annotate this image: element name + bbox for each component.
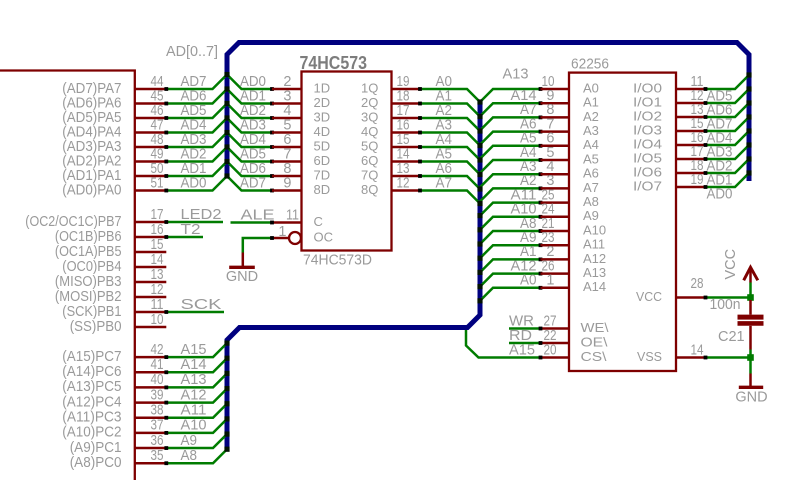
svg-text:38: 38 bbox=[151, 403, 164, 419]
svg-text:19: 19 bbox=[691, 172, 704, 188]
svg-text:VCC: VCC bbox=[723, 249, 739, 280]
wire net A5 (latch 6Q to A bus) bbox=[418, 146, 480, 174]
wire net A0 (A bus to SRAM pin 1) bbox=[480, 273, 542, 301]
pin 10 PB0 bbox=[70, 312, 167, 335]
svg-text:(A10)PC2: (A10)PC2 bbox=[62, 425, 121, 441]
pin 39 PC4 bbox=[62, 387, 166, 410]
SRAM pin 19 I/O7 bbox=[633, 172, 706, 194]
svg-text:A10: A10 bbox=[181, 418, 207, 434]
pin 46 PA5 bbox=[62, 103, 166, 126]
SRAM pin 18 I/O6 bbox=[633, 158, 706, 180]
svg-text:(OC2/OC1C)PB7: (OC2/OC1C)PB7 bbox=[25, 214, 121, 230]
SRAM pin 8 A2 bbox=[541, 102, 599, 124]
latch pin 9 8D bbox=[272, 175, 330, 197]
svg-text:14: 14 bbox=[691, 342, 704, 358]
wire net AD7 (SRAM I/O2 to AD bus) bbox=[704, 103, 749, 133]
wire net AD4 (CPU to AD bus) bbox=[164, 117, 227, 134]
svg-text:3D: 3D bbox=[314, 109, 331, 124]
latch pin 17 3Q bbox=[361, 103, 420, 125]
SRAM pin 9 A1 bbox=[541, 88, 599, 110]
svg-text:1: 1 bbox=[278, 224, 286, 240]
latch pin 18 2Q bbox=[361, 88, 420, 110]
svg-text:39: 39 bbox=[151, 387, 164, 403]
svg-text:14: 14 bbox=[151, 252, 164, 268]
svg-text:GND: GND bbox=[226, 269, 258, 285]
latch pin 7 6D bbox=[272, 146, 330, 168]
svg-text:17: 17 bbox=[151, 207, 164, 223]
wire net AD3 (SRAM I/O4 to AD bus) bbox=[704, 131, 749, 161]
svg-text:I/O3: I/O3 bbox=[633, 122, 662, 137]
SRAM pin 20 CS\ bbox=[541, 343, 607, 364]
svg-text:36: 36 bbox=[151, 433, 164, 449]
wire net AD7 (AD bus to latch 7D) bbox=[227, 175, 274, 192]
wire net A3 (A bus to SRAM pin 4) bbox=[480, 159, 542, 187]
wire net GND (pin14 to ground) bbox=[704, 356, 753, 360]
svg-text:SCK: SCK bbox=[181, 297, 222, 313]
svg-text:35: 35 bbox=[151, 448, 164, 464]
latch pin 3 2D bbox=[272, 88, 330, 110]
svg-text:1Q: 1Q bbox=[361, 80, 378, 95]
wire OC to ground bbox=[243, 236, 274, 252]
wire net AD6 (CPU to AD bus) bbox=[164, 88, 227, 105]
wire net AD3 (AD bus to latch 3D) bbox=[227, 117, 274, 134]
wire net AD3 (CPU to AD bus) bbox=[164, 132, 227, 149]
svg-text:(OC0)PB4: (OC0)PB4 bbox=[62, 259, 121, 275]
svg-text:4D: 4D bbox=[314, 124, 331, 139]
wire net AD0 (CPU to AD bus) bbox=[164, 175, 227, 192]
wire net AD2 (AD bus to latch 2D) bbox=[227, 103, 274, 120]
svg-text:A15: A15 bbox=[509, 343, 535, 359]
SRAM pin 1 A14 bbox=[541, 273, 607, 295]
svg-text:28: 28 bbox=[691, 276, 704, 292]
pin 40 PC5 bbox=[62, 372, 166, 395]
svg-text:6Q: 6Q bbox=[361, 153, 378, 168]
bus label AD[0..7] bbox=[166, 44, 218, 60]
svg-text:LED2: LED2 bbox=[181, 207, 222, 223]
svg-text:AD7: AD7 bbox=[240, 175, 266, 191]
bus A[0..15] (lower loop) bbox=[227, 100, 480, 448]
svg-text:7Q: 7Q bbox=[361, 167, 378, 182]
svg-text:A10: A10 bbox=[583, 222, 606, 237]
pin 36 PC1 bbox=[70, 433, 167, 456]
svg-text:GND: GND bbox=[735, 390, 767, 406]
SRAM pin 15 I/O3 bbox=[633, 116, 706, 138]
SRAM pin 17 I/O5 bbox=[633, 144, 706, 166]
svg-text:I/O7: I/O7 bbox=[633, 178, 662, 193]
svg-text:OC: OC bbox=[314, 229, 334, 244]
svg-text:A0: A0 bbox=[583, 80, 599, 95]
svg-text:74HC573: 74HC573 bbox=[300, 53, 368, 73]
svg-text:T2: T2 bbox=[181, 222, 201, 238]
pin 12 PB2 bbox=[55, 282, 166, 305]
svg-text:11: 11 bbox=[151, 297, 164, 313]
SRAM pin 26 A13 bbox=[541, 258, 607, 280]
pin 45 PA6 bbox=[62, 88, 166, 111]
wire net A7 (latch 8Q to A bus) bbox=[418, 175, 480, 203]
svg-text:51: 51 bbox=[151, 175, 164, 191]
svg-text:6D: 6D bbox=[314, 153, 331, 168]
svg-text:(MISO)PB3: (MISO)PB3 bbox=[55, 274, 122, 290]
pin 44 PA7 bbox=[62, 74, 166, 97]
wire net A2 (latch 3Q to A bus) bbox=[418, 103, 480, 131]
wire net AD6 (AD bus to latch 6D) bbox=[227, 161, 274, 178]
wire net ALE bbox=[231, 207, 275, 224]
pin 49 PA2 bbox=[62, 146, 166, 169]
pin 16 PB6 bbox=[55, 222, 166, 245]
wire net AD5 (CPU to AD bus) bbox=[164, 103, 227, 120]
svg-text:A8: A8 bbox=[583, 194, 599, 209]
svg-text:A13: A13 bbox=[503, 67, 529, 83]
wire net AD7 (CPU to AD bus) bbox=[164, 74, 227, 91]
svg-text:10: 10 bbox=[151, 312, 164, 328]
svg-text:A14: A14 bbox=[583, 279, 606, 294]
wire net AD2 (SRAM I/O5 to AD bus) bbox=[704, 145, 749, 175]
pin 50 PA1 bbox=[62, 161, 166, 184]
label 74HC573D (value) bbox=[303, 253, 372, 269]
bus tap junctions (dark overlaps) bbox=[224, 72, 751, 452]
wire net AD5 (AD bus to latch 5D) bbox=[227, 146, 274, 163]
latch pin 5 4D bbox=[272, 117, 330, 139]
svg-text:A1: A1 bbox=[583, 95, 599, 110]
svg-text:5Q: 5Q bbox=[361, 138, 378, 153]
latch pin 4 3D bbox=[272, 103, 330, 125]
bus AD[0..7] (top loop) bbox=[227, 43, 749, 182]
pin 51 PA0 bbox=[62, 175, 166, 198]
svg-text:(MOSI)PB2: (MOSI)PB2 bbox=[55, 289, 122, 305]
wire net A0 (latch 1Q to A bus) bbox=[418, 74, 480, 102]
svg-text:20: 20 bbox=[544, 343, 557, 359]
IC CPU (AVR, partial symbol) box bbox=[0, 71, 135, 480]
wire net A6 (A bus to SRAM pin 7) bbox=[480, 116, 542, 144]
wire net VCC (pin28 to supply) bbox=[704, 296, 753, 300]
latch pin 1 OC (inverted, bubble) bbox=[272, 224, 333, 245]
wire net A10 (A bus to SRAM pin 24) bbox=[480, 202, 542, 230]
wire net A3 (latch 4Q to A bus) bbox=[418, 117, 480, 145]
svg-text:(OC1B)PB6: (OC1B)PB6 bbox=[55, 229, 122, 245]
label 62256 (name) bbox=[571, 57, 609, 73]
wire net SCK bbox=[164, 297, 224, 314]
svg-text:1D: 1D bbox=[314, 80, 331, 95]
wire net A2 (A bus to SRAM pin 3) bbox=[480, 173, 542, 201]
svg-text:5D: 5D bbox=[314, 138, 331, 153]
label 100n (value) bbox=[710, 297, 741, 313]
svg-text:AD0: AD0 bbox=[707, 187, 733, 203]
svg-text:A11: A11 bbox=[583, 237, 605, 252]
wire net A13 (CPU to A bus) bbox=[164, 372, 227, 389]
ground symbol GND (latch OC) bbox=[226, 253, 258, 286]
svg-text:WE\: WE\ bbox=[581, 320, 609, 335]
svg-text:2D: 2D bbox=[314, 95, 331, 110]
SRAM pin 4 A6 bbox=[541, 159, 599, 181]
svg-text:I/O4: I/O4 bbox=[633, 136, 662, 151]
svg-text:74HC573D: 74HC573D bbox=[303, 253, 372, 269]
svg-text:AD[0..7]: AD[0..7] bbox=[166, 44, 218, 60]
wire net A15 (CPU to A bus) bbox=[164, 342, 227, 359]
svg-text:(A11)PC3: (A11)PC3 bbox=[62, 410, 121, 426]
svg-text:A11: A11 bbox=[181, 403, 207, 419]
SRAM pin 24 A9 bbox=[541, 202, 599, 224]
svg-text:A12: A12 bbox=[181, 387, 207, 403]
pin 48 PA3 bbox=[62, 132, 166, 155]
wire net A11 (A bus to SRAM pin 25) bbox=[480, 187, 542, 215]
svg-text:40: 40 bbox=[151, 372, 164, 388]
pin 38 PC3 bbox=[62, 403, 166, 426]
wire net A5 (A bus to SRAM pin 6) bbox=[480, 131, 542, 159]
latch pin 2 1D bbox=[272, 74, 330, 96]
latch pin 16 4Q bbox=[361, 117, 420, 139]
wire net AD2 (CPU to AD bus) bbox=[164, 146, 227, 163]
latch pin 12 8Q bbox=[361, 175, 420, 197]
SRAM pin 5 A5 bbox=[541, 145, 599, 167]
label 74HC573 (name) bbox=[300, 53, 368, 73]
svg-text:(A14)PC6: (A14)PC6 bbox=[62, 364, 121, 380]
pin 15 PB5 bbox=[55, 237, 166, 260]
wire net LED2 bbox=[164, 207, 223, 224]
latch pin 19 1Q bbox=[361, 74, 420, 96]
svg-text:I/O5: I/O5 bbox=[633, 150, 662, 165]
SRAM pin 22 OE\ bbox=[541, 328, 608, 349]
pin 17 PB7 bbox=[25, 207, 166, 230]
svg-text:42: 42 bbox=[151, 342, 164, 358]
latch pin 8 7D bbox=[272, 161, 330, 183]
latch pin 11 C (ALE) bbox=[272, 207, 323, 229]
wire net AD4 (SRAM I/O3 to AD bus) bbox=[704, 117, 749, 147]
svg-text:I/O1: I/O1 bbox=[633, 94, 662, 109]
svg-text:VSS: VSS bbox=[637, 349, 662, 364]
svg-text:3Q: 3Q bbox=[361, 109, 378, 124]
wire capacitor to ground node bbox=[749, 350, 752, 374]
svg-text:A7: A7 bbox=[583, 180, 599, 195]
svg-text:A13: A13 bbox=[181, 372, 207, 388]
wire net AD0 (AD bus to latch 0D) bbox=[227, 74, 274, 91]
svg-text:15: 15 bbox=[151, 237, 164, 253]
svg-text:A15: A15 bbox=[181, 342, 207, 358]
svg-text:62256: 62256 bbox=[571, 57, 609, 73]
svg-text:7D: 7D bbox=[314, 167, 331, 182]
SRAM pin 7 A3 bbox=[541, 116, 599, 138]
svg-text:12: 12 bbox=[397, 175, 410, 191]
wire net A1 (latch 2Q to A bus) bbox=[418, 88, 480, 116]
SRAM pin 10 A0 bbox=[541, 74, 599, 96]
svg-text:A9: A9 bbox=[181, 433, 198, 449]
svg-text:CS\: CS\ bbox=[581, 349, 607, 364]
svg-text:(A8)PC0: (A8)PC0 bbox=[70, 455, 122, 471]
svg-text:41: 41 bbox=[151, 357, 164, 373]
svg-text:11: 11 bbox=[286, 207, 299, 223]
wire net A4 (A bus to SRAM pin 5) bbox=[480, 145, 542, 173]
wire net A14 (CPU to A bus) bbox=[164, 357, 227, 374]
SRAM pin 21 A10 bbox=[541, 216, 607, 238]
svg-text:ALE: ALE bbox=[241, 207, 275, 223]
pin 11 PB1 bbox=[62, 297, 166, 320]
capacitor C21 100n bbox=[738, 300, 764, 350]
SRAM pin 27 WE\ bbox=[541, 314, 609, 335]
svg-text:A9: A9 bbox=[583, 208, 599, 223]
wire net A11 (CPU to A bus) bbox=[164, 403, 227, 420]
svg-text:9: 9 bbox=[283, 175, 291, 191]
wire net RD bbox=[509, 328, 542, 345]
wire net AD5 (SRAM I/O0 to AD bus) bbox=[704, 75, 749, 105]
pin 37 PC2 bbox=[62, 418, 166, 441]
svg-text:A13: A13 bbox=[583, 265, 606, 280]
ground symbol GND (right) bbox=[735, 374, 767, 406]
svg-text:C21: C21 bbox=[718, 329, 745, 345]
wire VCC arrow to node bbox=[749, 283, 752, 298]
wire net A9 (A bus to SRAM pin 23) bbox=[480, 230, 542, 258]
wire net A13 (A bus to SRAM pin 10) bbox=[480, 67, 542, 103]
svg-text:(OC1A)PB5: (OC1A)PB5 bbox=[55, 244, 122, 260]
SRAM pin 3 A7 bbox=[541, 173, 599, 195]
svg-text:(A13)PC5: (A13)PC5 bbox=[62, 379, 121, 395]
pin 42 PC7 bbox=[62, 342, 166, 365]
label C21 (name) bbox=[718, 329, 745, 345]
wire net A1 (A bus to SRAM pin 2) bbox=[480, 244, 542, 272]
SRAM pin 23 A11 bbox=[541, 230, 606, 252]
svg-text:(A15)PC7: (A15)PC7 bbox=[62, 349, 121, 365]
SRAM pin 13 I/O2 bbox=[633, 102, 706, 124]
SRAM pin 14 VSS bbox=[637, 342, 706, 364]
svg-text:I/O6: I/O6 bbox=[633, 164, 662, 179]
svg-text:A2: A2 bbox=[583, 109, 599, 124]
wire net A4 (latch 5Q to A bus) bbox=[418, 132, 480, 160]
svg-text:A3: A3 bbox=[583, 123, 599, 138]
wire net A7 (A bus to SRAM pin 8) bbox=[480, 102, 542, 130]
junction VCC node bbox=[747, 294, 754, 301]
svg-text:I/O0: I/O0 bbox=[633, 80, 662, 95]
SRAM pin 12 I/O1 bbox=[633, 88, 706, 110]
SRAM pin 16 I/O4 bbox=[633, 130, 706, 152]
svg-text:C: C bbox=[314, 214, 323, 229]
svg-text:A6: A6 bbox=[583, 166, 599, 181]
svg-text:1: 1 bbox=[546, 273, 554, 289]
svg-text:A0: A0 bbox=[520, 273, 537, 289]
latch pin 13 7Q bbox=[361, 161, 420, 183]
svg-text:37: 37 bbox=[151, 418, 164, 434]
svg-text:A12: A12 bbox=[583, 251, 606, 266]
svg-text:(SCK)PB1: (SCK)PB1 bbox=[62, 304, 121, 320]
svg-text:(A12)PC4: (A12)PC4 bbox=[62, 394, 121, 410]
wire net A6 (latch 7Q to A bus) bbox=[418, 161, 480, 189]
svg-text:A4: A4 bbox=[583, 137, 599, 152]
pin 13 PB3 bbox=[55, 267, 166, 290]
pin 35 PC0 bbox=[70, 448, 167, 471]
wire net AD1 (SRAM I/O6 to AD bus) bbox=[704, 159, 749, 189]
wire net A15 (A bus to CS) bbox=[466, 330, 542, 359]
wire net AD4 (AD bus to latch 4D) bbox=[227, 132, 274, 149]
svg-text:13: 13 bbox=[151, 267, 164, 283]
pin 14 PB4 bbox=[62, 252, 166, 275]
wire net AD0 (SRAM I/O7 to AD bus) bbox=[704, 173, 749, 203]
pin 47 PA4 bbox=[62, 117, 166, 140]
svg-text:A7: A7 bbox=[436, 175, 453, 191]
svg-text:100n: 100n bbox=[710, 297, 741, 313]
wire net T2 bbox=[164, 222, 203, 239]
pin 41 PC6 bbox=[62, 357, 166, 380]
svg-text:A14: A14 bbox=[181, 357, 207, 373]
wire node to capacitor bbox=[749, 298, 752, 301]
IC U? 74HC573 latch box bbox=[302, 72, 392, 251]
svg-text:12: 12 bbox=[151, 282, 164, 298]
SRAM pin 6 A4 bbox=[541, 131, 599, 153]
svg-text:2Q: 2Q bbox=[361, 95, 378, 110]
svg-text:(SS)PB0: (SS)PB0 bbox=[70, 319, 122, 335]
wire net A12 (CPU to A bus) bbox=[164, 387, 227, 404]
wire net A9 (CPU to A bus) bbox=[164, 433, 227, 450]
wire net A10 (CPU to A bus) bbox=[164, 418, 227, 435]
svg-text:8Q: 8Q bbox=[361, 182, 378, 197]
wire net AD6 (SRAM I/O1 to AD bus) bbox=[704, 89, 749, 119]
supply symbol VCC (arrow) bbox=[723, 249, 758, 283]
wire net A8 (A bus to SRAM pin 21) bbox=[480, 216, 542, 244]
svg-text:(A9)PC1: (A9)PC1 bbox=[70, 440, 122, 456]
svg-text:8D: 8D bbox=[314, 182, 331, 197]
wire net A8 (CPU to A bus) bbox=[164, 448, 227, 465]
IC 62256 SRAM box bbox=[569, 73, 676, 371]
wire net AD1 (CPU to AD bus) bbox=[164, 161, 227, 178]
svg-text:4Q: 4Q bbox=[361, 124, 378, 139]
svg-text:(AD0)PA0: (AD0)PA0 bbox=[62, 182, 121, 198]
latch pin 6 5D bbox=[272, 132, 330, 154]
wire net A12 (A bus to SRAM pin 26) bbox=[480, 258, 542, 286]
svg-text:AD0: AD0 bbox=[181, 175, 207, 191]
SRAM pin 2 A12 bbox=[541, 244, 607, 266]
latch pin 14 6Q bbox=[361, 146, 420, 168]
svg-text:OE\: OE\ bbox=[581, 334, 608, 349]
latch pin 15 5Q bbox=[361, 132, 420, 154]
SRAM pin 25 A8 bbox=[541, 187, 599, 209]
svg-text:A8: A8 bbox=[181, 448, 198, 464]
SRAM pin 28 VCC bbox=[636, 276, 706, 304]
svg-text:16: 16 bbox=[151, 222, 164, 238]
wire net A14 (A bus to SRAM pin 9) bbox=[480, 88, 542, 116]
svg-text:A5: A5 bbox=[583, 151, 599, 166]
wire net WR bbox=[509, 314, 542, 331]
junction GND node bbox=[747, 354, 754, 361]
SRAM pin 11 I/O0 bbox=[633, 74, 706, 96]
svg-text:VCC: VCC bbox=[636, 289, 662, 304]
svg-text:I/O2: I/O2 bbox=[633, 108, 662, 123]
wire net AD1 (AD bus to latch 1D) bbox=[227, 88, 274, 105]
